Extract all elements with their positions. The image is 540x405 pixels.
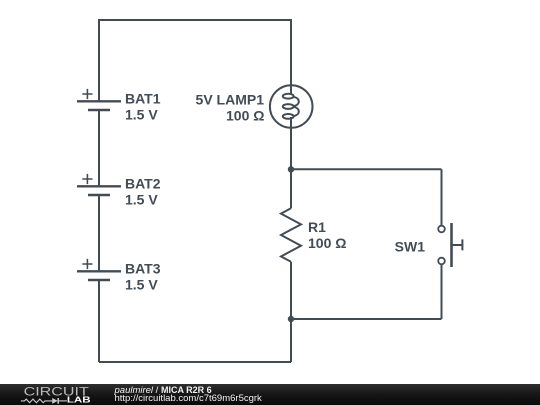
junction node bottom: [288, 316, 294, 322]
svg-text:1.5 V: 1.5 V: [125, 106, 158, 122]
svg-text:BAT2: BAT2: [125, 176, 161, 192]
wire branch right top: [441, 169, 443, 226]
battery BAT3: [77, 259, 121, 280]
wire left bottom: [98, 280, 100, 362]
wire resistor to junction: [290, 262, 292, 362]
svg-text:1.5 V: 1.5 V: [125, 191, 158, 207]
wire BAT1-BAT2: [98, 110, 100, 186]
wire branch right bottom: [441, 264, 443, 319]
wire branch top: [291, 168, 442, 170]
battery BAT2: [77, 174, 121, 195]
svg-text:BAT1: BAT1: [125, 91, 161, 107]
svg-text:BAT3: BAT3: [125, 261, 161, 277]
logo squiggle resistor-diode: [21, 398, 67, 404]
svg-text:LAB: LAB: [67, 396, 91, 405]
lamp LAMP1: [270, 85, 313, 128]
wire left top: [98, 19, 100, 101]
svg-text:100 Ω: 100 Ω: [308, 235, 346, 251]
footer bar: [0, 384, 540, 405]
svg-text:100 Ω: 100 Ω: [226, 107, 264, 123]
svg-text:SW1: SW1: [395, 238, 426, 254]
svg-text:R1: R1: [308, 219, 326, 235]
wire branch bottom: [291, 318, 442, 320]
wire right top: [290, 19, 292, 85]
switch SW1: [438, 223, 462, 267]
wire top: [99, 19, 291, 21]
wire lamp to junction: [290, 128, 292, 209]
resistor R1: [281, 208, 301, 261]
svg-text:http://circuitlab.com/c7t69m6r: http://circuitlab.com/c7t69m6r5cgrk: [115, 393, 263, 404]
svg-text:5V LAMP1: 5V LAMP1: [196, 91, 265, 107]
svg-text:1.5 V: 1.5 V: [125, 276, 158, 292]
junction node top: [288, 166, 294, 172]
wire bottom: [99, 361, 291, 363]
wire BAT2-BAT3: [98, 195, 100, 271]
battery BAT1: [77, 89, 121, 110]
